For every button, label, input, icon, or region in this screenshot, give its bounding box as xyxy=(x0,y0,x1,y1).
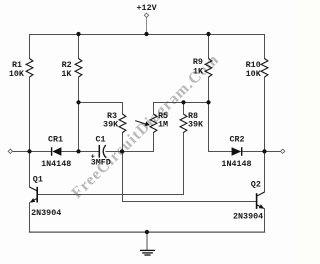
diode CR2 1N4148 xyxy=(232,147,242,156)
wire CR1 anode lead xyxy=(61,151,78,153)
svg-text:1N4148: 1N4148 xyxy=(221,159,251,169)
wire row C1 left xyxy=(79,151,100,153)
wire R5 top lead xyxy=(153,103,155,115)
svg-text:39K: 39K xyxy=(188,120,204,130)
resistor R3 39K zigzag xyxy=(119,114,126,133)
svg-text:1N4148: 1N4148 xyxy=(41,159,71,169)
svg-text:1K: 1K xyxy=(193,67,204,77)
wire CR1 cathode lead xyxy=(30,151,52,153)
wire R9 bottom lead xyxy=(208,77,210,151)
resistor R10 10K zigzag xyxy=(261,59,268,78)
wire row node to R5 corner xyxy=(123,151,154,153)
svg-text:2N3904: 2N3904 xyxy=(233,212,263,222)
wire Q2 emitter vertical xyxy=(264,209,266,232)
potentiometer R5 1M zigzag xyxy=(150,114,157,133)
wire Q1 base horizontal xyxy=(37,194,183,196)
wire Q1 collector vertical xyxy=(29,152,31,188)
resistor R9 1K zigzag xyxy=(205,59,212,78)
resistor R1 10K zigzag xyxy=(26,59,33,78)
wire top rail xyxy=(30,34,265,36)
wire output terminal lead xyxy=(265,151,281,153)
capacitor C1 3MFD xyxy=(99,145,106,158)
watermark FreeCircuitDiagram.Com xyxy=(68,51,222,202)
svg-text:CR2: CR2 xyxy=(229,135,244,145)
node +12V terminal xyxy=(144,13,148,17)
wire R2 bottom lead down to signal row xyxy=(78,77,80,151)
svg-text:R9: R9 xyxy=(193,57,203,67)
svg-text:1K: 1K xyxy=(61,69,72,79)
resistor R8 39K zigzag xyxy=(180,114,187,133)
wire input terminal lead xyxy=(13,151,30,153)
svg-text:Q1: Q1 xyxy=(33,175,43,185)
svg-text:10K: 10K xyxy=(9,69,25,79)
svg-text:C1: C1 xyxy=(95,135,105,145)
wire R2 top lead xyxy=(78,35,80,59)
transistor Q2 2N3904 xyxy=(257,192,265,209)
svg-text:1M: 1M xyxy=(158,120,168,130)
wire Q2 collector vertical xyxy=(264,152,266,193)
potentiometer R5 wiper arrow xyxy=(135,121,150,126)
wire R8 bottom lead xyxy=(183,133,185,195)
svg-text:2N3904: 2N3904 xyxy=(31,208,61,218)
diode CR1 1N4148 xyxy=(52,147,62,156)
wire R8 top lead xyxy=(183,103,185,115)
wire node to Q2 base vertical xyxy=(122,152,124,202)
wire bottom rail xyxy=(30,231,265,233)
svg-text:+12V: +12V xyxy=(137,3,158,13)
wire row C1 right to R3 node xyxy=(106,151,123,153)
wire +12V stub xyxy=(146,18,148,35)
wire R5 bottom lead xyxy=(153,133,155,152)
wire R1 top lead xyxy=(29,35,31,59)
svg-text:39K: 39K xyxy=(103,120,119,130)
wire R3 top lead xyxy=(122,103,124,115)
svg-text:CR1: CR1 xyxy=(48,135,63,145)
wire R10 bottom lead xyxy=(264,77,266,151)
svg-text:3MFD: 3MFD xyxy=(91,158,111,168)
wire R5 to R8 R9 horizontal xyxy=(154,102,209,104)
node output terminal xyxy=(281,149,285,153)
wire R2 to R3 horizontal xyxy=(79,102,123,104)
svg-text:10K: 10K xyxy=(246,69,262,79)
wire R9 top lead xyxy=(208,35,210,59)
wire Q2 base horizontal xyxy=(123,201,257,203)
resistor R2 1K zigzag xyxy=(75,59,82,78)
wire CR2 cathode lead xyxy=(242,151,265,153)
wire ground stem xyxy=(146,232,148,250)
wire Q1 emitter vertical xyxy=(29,203,31,232)
wire R1 bottom lead to input row xyxy=(29,77,31,151)
wire R3 bottom lead xyxy=(122,133,124,152)
ground xyxy=(140,250,155,255)
transistor Q1 2N3904 xyxy=(30,187,38,203)
node input terminal xyxy=(8,149,12,153)
wire R10 top lead xyxy=(264,35,266,59)
wire CR2 anode lead xyxy=(209,151,232,153)
svg-text:Q2: Q2 xyxy=(251,180,261,190)
